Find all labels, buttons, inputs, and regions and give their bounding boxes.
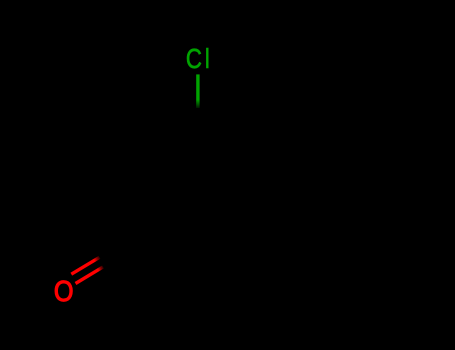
svg-text:l: l	[205, 44, 210, 74]
svg-text:C: C	[186, 44, 202, 75]
svg-text:O: O	[54, 274, 74, 307]
